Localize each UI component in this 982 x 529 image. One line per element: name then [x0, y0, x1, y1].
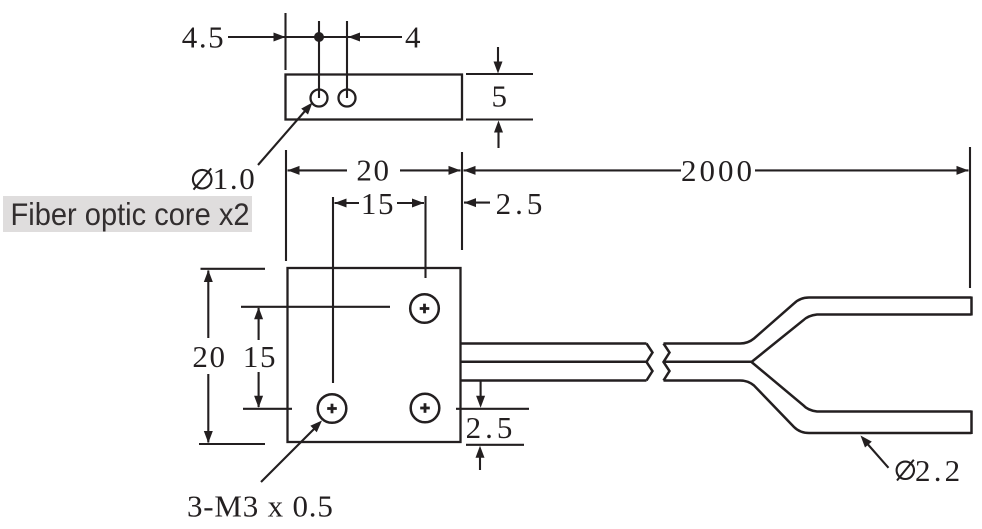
dim 5: bottom extension line	[466, 118, 533, 120]
centerline to hole 1	[318, 21, 320, 98]
arrow right at x=285.5	[274, 33, 286, 42]
arrow right tip x=968.5	[957, 166, 969, 175]
dim 15 top: line left part	[335, 202, 360, 204]
centerline horizontal top holes	[241, 306, 390, 308]
centerline to hole 2	[346, 21, 348, 98]
label background: Fiber optic core x2	[3, 196, 252, 232]
dim 2.5 bottom: extension line	[466, 444, 524, 446]
svg-text:2.2: 2.2	[915, 453, 963, 488]
centerline horizontal bottom holes left segment	[243, 408, 292, 410]
top view rectangle (side profile 20x5)	[286, 75, 463, 120]
arrow left tip x=287.5	[288, 166, 300, 175]
dim 2000 line right part	[755, 169, 969, 171]
leader for diameter 1.0	[258, 111, 305, 165]
dim 20 horizontal line right part	[400, 169, 461, 171]
extension line x=462 (right edge of head)	[461, 152, 463, 250]
Y-split top outer edge	[664, 298, 972, 344]
dim 2000 line left part	[464, 169, 682, 171]
screw hole bottom-left M3	[318, 394, 347, 423]
cable bottom line	[462, 379, 647, 382]
dim 20 left: vertical line lower	[207, 374, 209, 443]
svg-text:4.5: 4.5	[182, 20, 226, 55]
svg-text:20: 20	[192, 339, 226, 374]
fiber hole 2 (right, top view)	[339, 90, 356, 107]
break symbol right zigzag	[664, 344, 670, 381]
arrow left tip x=463.5	[464, 166, 476, 175]
dim 15 left: vertical line upper	[258, 308, 260, 340]
dim 5: top extension line	[466, 73, 533, 75]
dot between hole spacing dims	[314, 32, 324, 42]
extension line x=425.5 (hole col right)	[424, 196, 426, 278]
dim 15 left: vertical line lower	[258, 372, 260, 407]
leader for diameter 2.2	[868, 445, 889, 468]
dim 2.5 bottom: arrow up	[479, 457, 481, 470]
svg-text:2.5: 2.5	[496, 186, 547, 221]
break symbol left zigzag	[647, 344, 653, 381]
svg-text:5: 5	[491, 79, 508, 114]
dim 5: lower arrow (up)	[497, 132, 499, 148]
screw hole top-right M3	[410, 294, 439, 323]
dim 20 left: extension bottom	[199, 443, 265, 445]
arrow down tip y=443	[204, 431, 213, 443]
svg-text:2.5: 2.5	[466, 410, 517, 445]
arrow up tip y=307.3	[254, 307, 263, 319]
fiber hole 1 (left, top view)	[311, 90, 328, 107]
arrow right tip x=460.5	[449, 166, 461, 175]
extension line x=333 (hole col left)	[332, 197, 334, 383]
cable middle line right of break	[664, 361, 752, 364]
arrow left at x=348	[348, 33, 360, 42]
arrow down tip y=407.7	[254, 396, 263, 408]
lower branch end cap	[970, 411, 973, 435]
leader for 3-M3 x 0.5	[261, 429, 314, 482]
dim 20 left: extension top	[201, 268, 266, 270]
Y-split upper inner edge	[752, 315, 972, 363]
extension line left edge top view	[284, 13, 286, 70]
dimension line 4.5 / 4	[228, 36, 402, 38]
extension line x=286 (left, width 20)	[285, 150, 287, 261]
cable top line	[462, 342, 647, 345]
label diameter 2.2 symbol	[897, 462, 914, 479]
svg-text:15: 15	[243, 339, 277, 374]
svg-text:2000: 2000	[681, 153, 755, 188]
screw hole bottom-right M3	[411, 394, 440, 423]
cable middle line	[462, 361, 647, 364]
arrow left tip x=334.5	[335, 199, 347, 208]
arrow right tip x=424	[412, 199, 424, 208]
dim 2.5 bottom: arrow down	[480, 382, 482, 397]
svg-text:Fiber optic core x2: Fiber optic core x2	[11, 198, 250, 232]
svg-text:4: 4	[405, 20, 422, 55]
dim 2.5 top: arrow + line	[464, 202, 490, 204]
dim 20 left: vertical line upper	[207, 271, 209, 339]
svg-text:1.0: 1.0	[213, 161, 257, 196]
svg-text:15: 15	[361, 186, 395, 221]
arrow up tip y=270	[204, 270, 213, 282]
front view square 20x20	[288, 268, 461, 442]
centerline horizontal bottom holes right segment	[456, 408, 529, 410]
extension line x=970 (fiber end)	[969, 147, 971, 288]
label diameter 1.0 symbol	[193, 170, 212, 189]
dim 15 top: line right part	[397, 202, 424, 204]
Y-split bottom outer edge	[664, 381, 972, 434]
svg-text:3-M3 x 0.5: 3-M3 x 0.5	[187, 489, 334, 524]
upper branch end cap	[970, 297, 973, 316]
dim 5: upper arrow (down)	[497, 47, 499, 63]
svg-text:20: 20	[356, 153, 390, 188]
dim 20 horizontal line left part	[288, 169, 348, 171]
Y-split lower inner edge	[752, 362, 972, 412]
